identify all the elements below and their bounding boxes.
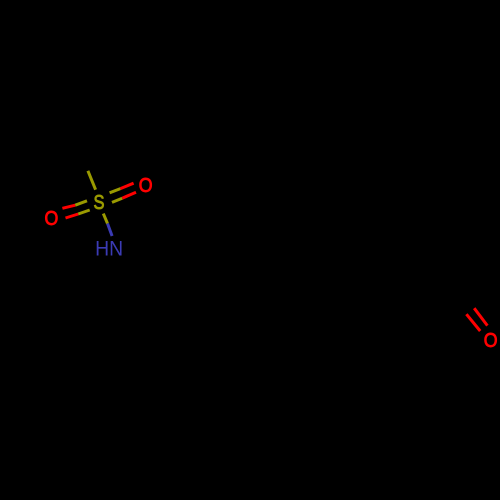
wire: S=O left double bond, lower line, S half (yellow)	[78, 210, 90, 214]
wire: C=O carbonyl double bond, outer line, O half (red)	[474, 308, 487, 325]
wire: S=O left double bond, lower line, O half (red)	[66, 214, 79, 218]
wire: S=O right double bond, upper line, S half (yellow)	[110, 189, 121, 193]
wire: S-N bond, N half (blue)	[108, 224, 113, 237]
wire: S=O left double bond, upper line, O half (red)	[62, 205, 75, 208]
svg-text:S: S	[94, 191, 105, 214]
svg-text:O: O	[484, 329, 498, 352]
svg-text:O: O	[139, 174, 153, 197]
wire: S=O right double bond, lower line, S half (yellow)	[112, 198, 122, 202]
wire: S=O left double bond, upper line, S half (yellow)	[75, 201, 87, 205]
wire: S=O right double bond, lower line, O half (red)	[122, 192, 136, 198]
wire: S=O right double bond, upper line, O half (red)	[120, 183, 133, 188]
wire: C=O carbonyl double bond, inner line, O half (red)	[466, 314, 480, 331]
wire: methyl C-S bond (S half, yellow)	[88, 171, 96, 190]
svg-text:HN: HN	[95, 237, 123, 260]
svg-text:O: O	[45, 207, 59, 230]
wire: S-N bond, S half (yellow)	[103, 214, 107, 224]
